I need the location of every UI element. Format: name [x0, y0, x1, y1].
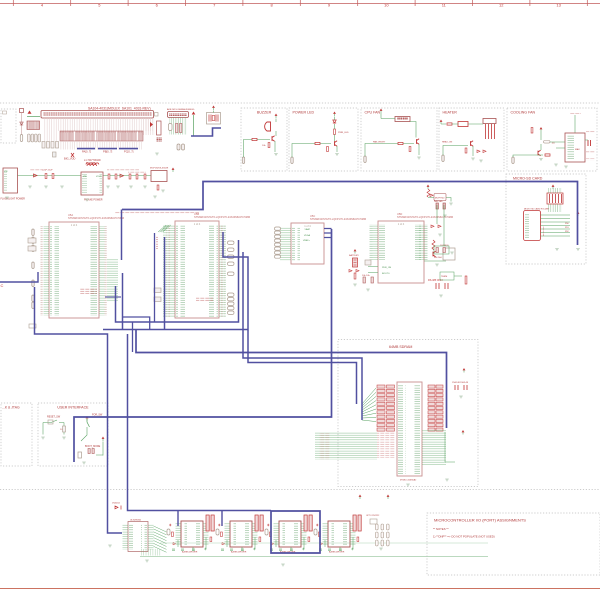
vcc coolfan — [540, 127, 543, 129]
5k6 5k6 box — [434, 246, 449, 254]
U5C left pin names — [292, 227, 300, 261]
ground d — [438, 234, 442, 236]
box MICRO SD CARD — [506, 174, 586, 264]
resistor R30 — [252, 138, 257, 140]
U5A left pin stubs — [44, 226, 50, 316]
ground battery — [353, 284, 357, 286]
U5B left pin stubs — [163, 225, 175, 317]
vcc cpufan — [380, 109, 383, 111]
section border bottom — [0, 489, 600, 491]
bus PC stub — [119, 148, 138, 150]
wire U5D boot — [368, 267, 378, 273]
ground — [44, 186, 48, 188]
diodes 1N4148 — [349, 270, 359, 273]
U5A right bus wires — [107, 258, 118, 302]
resistor R33 — [334, 129, 336, 135]
pad tach1 — [544, 141, 551, 144]
U5A left pin numbers — [40, 226, 44, 316]
U5D right pin dots — [425, 224, 428, 260]
resistor R36 — [409, 147, 411, 152]
reset switch SW1 — [46, 420, 64, 423]
sdram green rows left low — [315, 432, 377, 460]
wire net MCU-SD long — [122, 182, 578, 246]
svg-text:OPTO 2N2222: OPTO 2N2222 — [366, 515, 380, 517]
connector J1 body — [41, 111, 154, 119]
pad U5A left — [32, 229, 34, 236]
regulator U11 picaxe — [81, 172, 103, 195]
vcc drv2 — [387, 495, 390, 497]
ground — [129, 186, 133, 188]
U5C left pads column — [275, 227, 281, 230]
U5B inner note — [196, 297, 213, 302]
U5B right pads column — [228, 241, 235, 244]
box 64MB SDRAM — [338, 340, 478, 487]
wire rs485 — [424, 261, 462, 276]
caps row below — [28, 134, 31, 142]
wire net D — [243, 252, 362, 420]
svg-text:MT48LC16M16A2: MT48LC16M16A2 — [400, 479, 417, 482]
ground sdram3 — [406, 484, 410, 486]
right pad columns — [376, 524, 379, 530]
thermistor circuit — [430, 194, 440, 197]
U5A left pin names — [50, 226, 59, 316]
transistor Q14 — [538, 150, 541, 156]
ground boot — [366, 289, 370, 291]
bus PA stub — [77, 148, 95, 150]
J2 vcc line — [193, 115, 195, 136]
pad U5A left — [32, 280, 34, 287]
left pin group wires — [43, 131, 58, 141]
svg-text:STM32F407ZGT6-LQFP176-24X24MM-: STM32F407ZGT6-LQFP176-24X24MM-P0.5MM — [194, 215, 250, 219]
resistor network RN1 band — [60, 131, 143, 141]
cap C24 — [129, 174, 131, 179]
pad box — [53, 152, 57, 157]
cap C26 — [144, 174, 146, 179]
diodes right 1N4148 — [431, 225, 441, 228]
ground cpufan — [417, 157, 421, 159]
transistor Q10 — [272, 136, 275, 142]
ground — [161, 190, 165, 192]
ground drivers — [281, 564, 285, 566]
diode D3 — [120, 174, 124, 177]
sdram caps right — [455, 385, 467, 390]
header J2 body — [168, 112, 189, 118]
svg-text:MAX: MAX — [575, 148, 580, 151]
svg-text:POWER LED: POWER LED — [293, 110, 315, 114]
stepper driver block 3 — [265, 515, 312, 554]
vcc ui — [86, 416, 89, 418]
pad coolfan in — [512, 157, 514, 164]
pad heater in — [442, 155, 444, 162]
wire sd data — [541, 218, 571, 220]
svg-text:PDR_ON: PDR_ON — [382, 267, 392, 269]
resistor R34 — [327, 147, 329, 152]
svg-text:RESET_SW: RESET_SW — [47, 416, 61, 419]
wire net A2b — [123, 317, 150, 330]
left dashed box — [1, 109, 16, 143]
ground coolfan3 — [564, 166, 568, 168]
svg-text:STM32F407ZGT6-LQFP176-24X24MM-: STM32F407ZGT6-LQFP176-24X24MM-P0.5MM — [397, 215, 453, 219]
U5B right pin numbers — [221, 225, 225, 317]
ground sd1 — [555, 249, 559, 251]
ground buzzer — [274, 154, 278, 156]
U5A inner note — [80, 288, 97, 294]
connector right tall part — [157, 121, 162, 135]
wire box drv3 — [271, 511, 320, 553]
svg-text:1 of 4: 1 of 4 — [71, 223, 78, 227]
wire mcp — [428, 198, 451, 202]
sdram left low labels — [319, 433, 330, 460]
heater element RT1 — [458, 122, 468, 127]
svg-text:1N4148 1N4148: 1N4148 1N4148 — [452, 382, 469, 384]
ground — [106, 186, 110, 188]
resistor R32 — [315, 142, 320, 144]
cap C40 — [365, 260, 371, 265]
wire heater base — [443, 146, 468, 156]
connector J1 pads — [43, 113, 152, 116]
fan connector J10 — [395, 117, 410, 122]
svg-text:13: 13 — [556, 2, 561, 7]
svg-text:1 of 4: 1 of 4 — [304, 224, 311, 228]
transistor Q13 — [471, 141, 474, 147]
ground — [60, 186, 64, 188]
ground heater — [471, 158, 475, 160]
ground reset2 — [62, 437, 66, 439]
wire coolfan — [513, 132, 588, 158]
ic right labels — [586, 131, 595, 133]
cap C21 — [52, 174, 54, 179]
wire buzzer base — [244, 140, 271, 158]
ground coolfan2 — [554, 164, 558, 166]
wire net E2 — [154, 233, 156, 322]
sdram left resistor array — [377, 385, 385, 388]
inductor L2 — [87, 164, 97, 166]
svg-text:VREF+: VREF+ — [303, 240, 311, 242]
sdram left lower labels — [377, 432, 395, 458]
U5A small pads — [29, 324, 36, 328]
ground sdram1 — [459, 396, 463, 398]
svg-text:VIN: VIN — [4, 171, 8, 173]
ground temp — [435, 264, 439, 266]
ground ui — [82, 462, 86, 464]
cap C22 — [108, 174, 110, 179]
ground pwrled — [335, 154, 339, 156]
wire sd data — [541, 232, 571, 234]
svg-text:MICRO-SD CARD: MICRO-SD CARD — [513, 177, 543, 181]
resistor R61 — [465, 276, 467, 284]
stepper driver block 4 — [314, 515, 361, 554]
vcc triangle small cluster — [28, 111, 32, 114]
svg-text:BIG_VDD: BIG_VDD — [64, 157, 76, 161]
wire net I — [128, 334, 272, 511]
LED D10 — [333, 120, 336, 123]
wire net A1 — [121, 210, 123, 261]
resistor R60 — [354, 273, 356, 279]
box BUZZER — [241, 108, 287, 171]
diode D11 — [477, 150, 480, 153]
U5D left pin dots — [370, 224, 373, 260]
transistor Q11 — [335, 141, 338, 147]
box CPU FAN — [361, 108, 437, 171]
svg-text:5k6 5k6: 5k6 5k6 — [434, 257, 442, 259]
wire reset — [43, 423, 64, 435]
svg-text:BOOT_MODE: BOOT_MODE — [85, 445, 101, 448]
wire drop drv1 — [177, 510, 179, 526]
resistor R31 10k — [268, 143, 270, 148]
svg-text:PB[0..7]: PB[0..7] — [103, 150, 113, 154]
U5B left pin numbers — [166, 225, 170, 317]
wire net H — [0, 272, 38, 282]
diode D12 — [483, 150, 486, 153]
wire ic top — [574, 115, 576, 133]
resistor R38 — [465, 148, 467, 153]
box USER INTERFACE — [38, 403, 108, 466]
resistor network RN5 — [547, 193, 563, 204]
comp cluster: diode — [20, 122, 23, 125]
section border top — [0, 102, 600, 104]
svg-text:TERM: TERM — [441, 276, 447, 278]
wire cpufan e — [418, 144, 420, 155]
svg-text:1) **DNP** => DO NOT POPULATE: 1) **DNP** => DO NOT POPULATE (NOT USED) — [433, 535, 495, 539]
crystal Y1 box — [207, 113, 221, 125]
vcc drv1 — [359, 495, 362, 497]
sdram right green wires — [422, 430, 446, 466]
svg-text:C: C — [1, 283, 4, 288]
vcc +3V3 — [172, 168, 175, 170]
svg-text:VOUT: VOUT — [96, 176, 102, 178]
connector J1 pin wires lower — [60, 141, 143, 150]
U7 input diode — [115, 506, 121, 510]
wire pwrled base — [292, 144, 331, 158]
transistor Q15 — [433, 251, 436, 257]
bus PB stub — [98, 148, 117, 150]
ground U7b — [145, 560, 149, 562]
pad U5A left — [32, 295, 34, 302]
wire sdram fan — [362, 388, 376, 422]
wire net F — [74, 229, 332, 462]
ruler ticks — [13, 0, 587, 6]
svg-text:1N4004: 1N4004 — [112, 503, 120, 505]
resistor R37 — [447, 123, 452, 125]
svg-text:STM32F407ZGT6-LQFP176-24X24MM-: STM32F407ZGT6-LQFP176-24X24MM-P0.5MM — [310, 217, 366, 221]
net X symbol — [71, 153, 74, 157]
decoder U7 — [128, 522, 148, 552]
U5A right pin stubs — [99, 226, 105, 316]
rs485 caps — [436, 283, 448, 289]
right pin group wires — [143, 118, 155, 135]
comp cluster: wire — [21, 113, 23, 136]
ground coolfan1 — [539, 159, 543, 161]
pad U5A left — [32, 262, 34, 269]
inductor L1 — [86, 163, 99, 165]
left box inner glyph — [3, 111, 7, 114]
wire sd data — [541, 225, 571, 227]
cap C27 — [157, 185, 159, 190]
boot switch SW2 — [87, 419, 90, 427]
cap C30 — [588, 140, 591, 146]
wire heater top — [441, 123, 483, 126]
vcc heater — [440, 120, 443, 122]
ground 5k6 — [450, 252, 454, 254]
U5A left tan box — [28, 238, 36, 243]
svg-text:MICROCONTROLLER I/O (PORT) ASS: MICROCONTROLLER I/O (PORT) ASSIGNMENTS — [434, 518, 526, 523]
svg-text:SA104-4031(MOLEX_SA101_4031-RE: SA104-4031(MOLEX_SA101_4031-REV) — [88, 107, 151, 111]
J2 pads below — [177, 144, 180, 150]
svg-text:BOOT0: BOOT0 — [382, 273, 390, 275]
svg-text:** NOTES **: ** NOTES ** — [433, 527, 449, 531]
pad U5A left — [32, 237, 34, 244]
U5B right pin names — [209, 225, 218, 317]
svg-text:FOR_SW: FOR_SW — [92, 414, 103, 417]
boot cap — [78, 452, 82, 458]
vcc sdram2 — [462, 430, 465, 432]
ground reset1 — [41, 437, 45, 439]
marker triangle — [150, 122, 153, 127]
svg-text:PC[0..7]: PC[0..7] — [124, 150, 134, 154]
svg-text:12: 12 — [499, 2, 504, 7]
temp sensor U14 — [443, 248, 455, 260]
ground rs485 — [439, 295, 443, 297]
wire bus diagonal — [158, 225, 171, 232]
wire usart vertical — [437, 205, 444, 246]
resistors 10k 10k — [363, 277, 365, 283]
fan controller U13 — [565, 133, 585, 162]
wire net G — [35, 287, 123, 533]
ground therm — [443, 215, 447, 217]
wire buzzer vert — [275, 119, 276, 153]
extra net label row — [115, 212, 199, 214]
ground — [116, 186, 120, 188]
regulator U12 3.3V — [151, 171, 167, 182]
sheet bottom border line — [0, 588, 600, 590]
wire net A2 — [122, 273, 124, 330]
U5A right pin numbers — [105, 226, 109, 316]
ground sdram2 — [445, 479, 449, 481]
pad buzzer in — [242, 157, 244, 164]
wire sdram gnd link — [445, 432, 455, 462]
U5B red bus label — [156, 236, 158, 249]
svg-text:FLASHLIGHT POWER: FLASHLIGHT POWER — [1, 198, 26, 201]
vcc battery — [354, 249, 357, 251]
transistor Q12 — [417, 139, 420, 145]
box POWER LED — [289, 108, 358, 171]
U5C left pin stubs — [280, 227, 291, 261]
U5A right pin names — [89, 226, 98, 316]
mcp9700 box — [434, 194, 446, 201]
svg-text:HEAT_ON: HEAT_ON — [442, 141, 453, 144]
svg-text:USER INTERFACE: USER INTERFACE — [57, 405, 89, 409]
U5B left pin names — [176, 225, 185, 317]
ground sd2 — [576, 249, 580, 251]
wire cpufan base — [365, 144, 414, 157]
svg-text:1 of 4: 1 of 4 — [398, 222, 405, 226]
svg-text:VIN: VIN — [83, 176, 87, 178]
vcc crystal — [212, 106, 215, 108]
svg-text:64MB SDRAM: 64MB SDRAM — [389, 345, 412, 349]
wire U5C vbat — [324, 229, 332, 238]
svg-text:1 of 4: 1 of 4 — [194, 222, 201, 226]
svg-text:AVR-ISP-6 SERIAL/DEBUG: AVR-ISP-6 SERIAL/DEBUG — [167, 108, 195, 111]
connector J1 pin wires upper — [43, 118, 153, 131]
svg-text:HEATER: HEATER — [443, 110, 458, 114]
svg-text:10k 10k: 10k 10k — [362, 275, 371, 277]
diode D2 — [34, 174, 38, 177]
pad cpufan in — [364, 156, 366, 163]
svg-text:FAN_RIGHT: FAN_RIGHT — [373, 141, 386, 144]
wire stub m — [132, 322, 134, 352]
battery B1 — [353, 258, 358, 267]
wire heater e — [472, 146, 474, 156]
rs485 u15 — [440, 272, 454, 280]
stepper driver block 2 — [216, 515, 263, 554]
regulator U10 flashlight — [3, 168, 18, 193]
sd socket J12 — [524, 211, 541, 241]
power rail wire — [17, 175, 151, 177]
resistor R41 — [545, 154, 550, 156]
sdram U6 — [397, 382, 422, 476]
vcc sd2 — [577, 212, 580, 214]
svg-text:VBAT: VBAT — [304, 228, 310, 231]
ground — [153, 196, 157, 198]
svg-text:22uF 22uF: 22uF 22uF — [42, 170, 53, 172]
U5B right pin stubs — [219, 225, 226, 317]
svg-text:BUZZER: BUZZER — [257, 110, 272, 114]
vcc mcp9700 — [427, 185, 430, 187]
svg-text:STM32F407ZGT6-LQFP176-24X24MM-: STM32F407ZGT6-LQFP176-24X24MM-P0.5MM — [68, 216, 124, 220]
wire U7 fan — [154, 526, 167, 552]
wire cpufan top — [381, 113, 416, 138]
svg-text:MCP9700: MCP9700 — [435, 198, 445, 200]
wire drop drv2 — [221, 510, 223, 526]
svg-text:BIG_VDD: BIG_VDD — [86, 163, 96, 165]
wire sd data — [541, 235, 571, 237]
buzzer SP1 — [265, 122, 271, 131]
ground — [28, 186, 32, 188]
green feed line — [27, 116, 40, 118]
ground J2 — [155, 153, 159, 155]
wire net C — [136, 330, 447, 428]
svg-text:CPU FAN: CPU FAN — [365, 110, 381, 114]
bottom small comps right — [370, 519, 377, 524]
J2 cap — [169, 124, 173, 131]
connector J1 pin 32 stub box — [155, 113, 159, 117]
svg-text:...K & JTAG: ...K & JTAG — [2, 406, 20, 410]
svg-text:COOLING FAN: COOLING FAN — [511, 110, 536, 114]
wire sd data — [541, 221, 571, 223]
ground heater2 — [479, 160, 483, 162]
heater connector J11 — [483, 119, 496, 124]
zigzag resistor top — [427, 189, 430, 197]
resistor R35 — [398, 142, 403, 144]
svg-text:PWR_LED: PWR_LED — [338, 132, 349, 134]
sdram right resistor array — [428, 385, 435, 388]
svg-text:VDDA: VDDA — [304, 234, 311, 237]
ground — [85, 199, 89, 201]
svg-text:10: 10 — [384, 2, 389, 7]
comp cluster: top box — [20, 109, 24, 113]
crystal Y1 caps — [209, 115, 211, 122]
pad U5A left — [32, 245, 34, 252]
svg-text:PA[0..7]: PA[0..7] — [82, 150, 91, 154]
sheet top ruler line — [0, 3, 600, 5]
wire sd data — [541, 214, 571, 216]
stepper driver block 1 — [167, 515, 214, 554]
J2 resistors — [176, 124, 178, 133]
svg-text:MICROSD: MICROSD — [543, 226, 545, 236]
U7 green pads below — [141, 549, 161, 556]
svg-text:BATTERY: BATTERY — [349, 254, 359, 257]
svg-text:MICRO SD CARD HOLDER: MICRO SD CARD HOLDER — [524, 208, 550, 211]
